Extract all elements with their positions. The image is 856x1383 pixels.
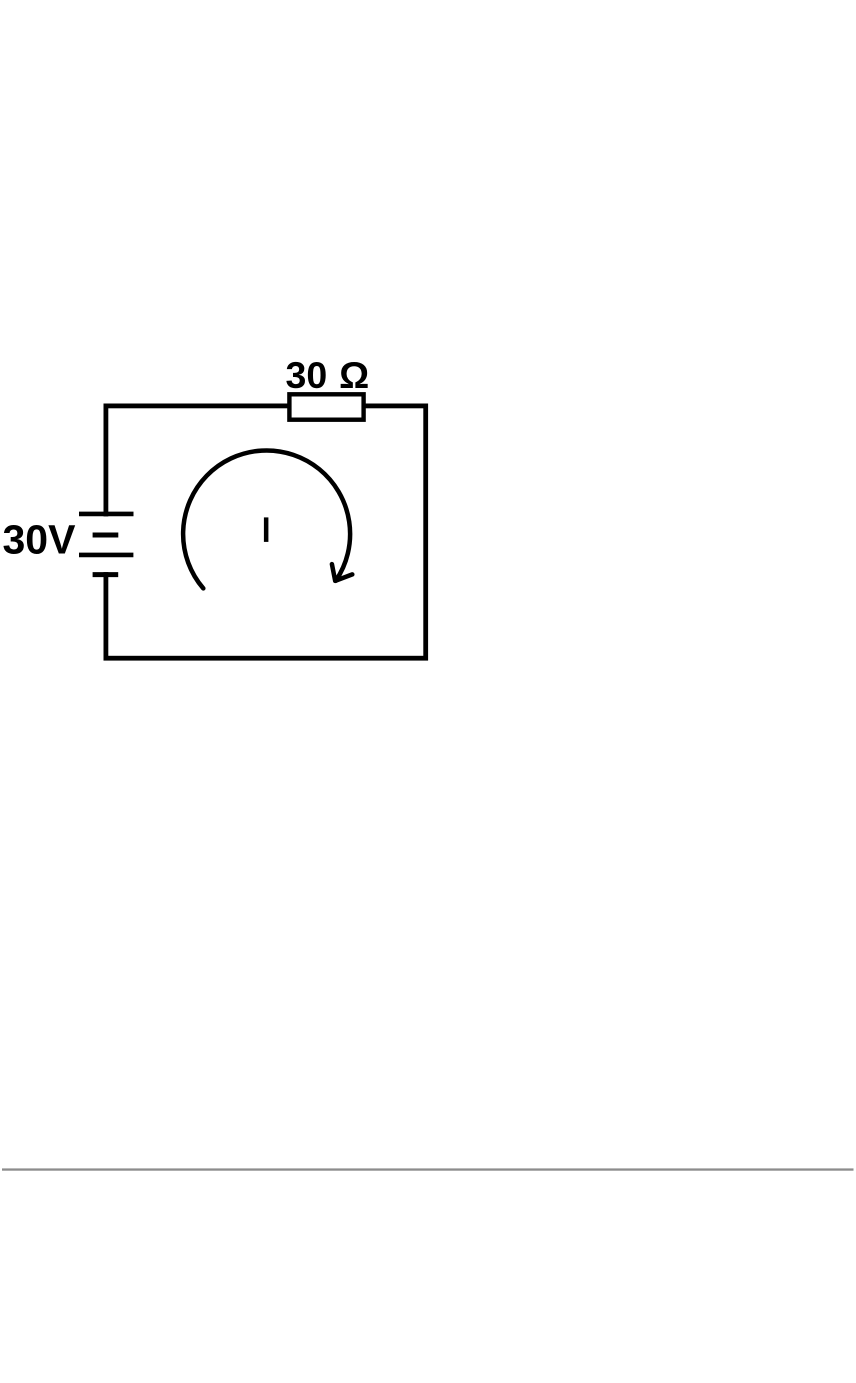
arrowhead of current arrow xyxy=(332,564,352,581)
battery B1 plate 1 (long, top) xyxy=(79,512,134,517)
resistor R1 (box on top wire) xyxy=(289,394,363,419)
svg-text:30V: 30V xyxy=(3,516,77,562)
svg-text:30 Ω: 30 Ω xyxy=(286,354,370,396)
current direction arrow (clockwise loop arc) xyxy=(183,450,350,588)
battery B1 plate 4 (short, bottom) xyxy=(93,572,119,577)
wire : circuit loop rectangle xyxy=(106,406,426,658)
wire gap for battery on left wire xyxy=(102,516,111,572)
horizontal separator rule xyxy=(2,1168,854,1170)
current label I xyxy=(264,517,269,542)
battery B1 plate 2 (short) xyxy=(93,533,119,538)
battery B1 plate 3 (long) xyxy=(79,553,133,558)
